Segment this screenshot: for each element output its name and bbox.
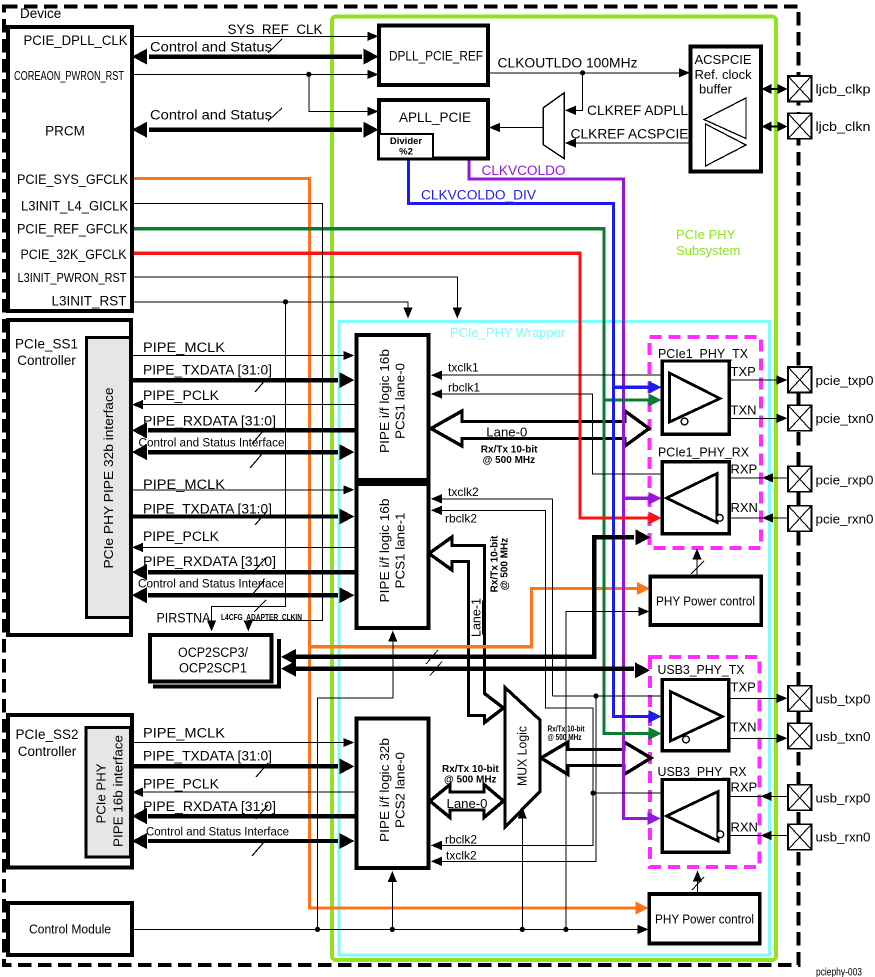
slash pirstna	[254, 600, 266, 612]
slash CS1	[268, 39, 282, 53]
pad pcie_rxn0	[788, 506, 812, 531]
svg-text:PCIe_SS2: PCIe_SS2	[15, 727, 78, 742]
slash CS2	[268, 108, 282, 121]
block PCIe1_PHY_TX	[662, 361, 729, 434]
PCIe PHY Subsystem boundary (green)	[332, 17, 776, 961]
svg-text:Rx/Tx 10-bit: Rx/Tx 10-bit	[442, 764, 499, 775]
wire to MUX bottom	[521, 817, 523, 929]
svg-text:L3INIT_L4_GICLK: L3INIT_L4_GICLK	[21, 199, 128, 214]
svg-text:CLKVCOLDO: CLKVCOLDO	[482, 163, 566, 178]
Lane-0 bus arrow PCS1	[431, 411, 649, 446]
block PHY Power control 1	[650, 577, 761, 626]
block OCP2SCP shadow	[153, 639, 279, 687]
svg-text:PIPE 16b interface: PIPE 16b interface	[111, 735, 126, 847]
bus CtrlStatus g1	[148, 450, 338, 454]
svg-text:Control and Status: Control and Status	[150, 40, 272, 55]
svg-text:Control and Status Interface: Control and Status Interface	[139, 436, 285, 450]
slash bus B	[430, 662, 442, 676]
svg-text:OCP2SCP3/: OCP2SCP3/	[178, 645, 248, 660]
wire PHY power control 2 enable	[697, 876, 699, 894]
wire mux1 to APLL	[499, 127, 543, 129]
svg-text:txclk2: txclk2	[446, 849, 477, 863]
svg-text:USB3_PHY_RX: USB3_PHY_RX	[658, 764, 747, 779]
bus CtrlStatus g2	[148, 593, 338, 597]
wire PIPE_PCLK g2	[142, 546, 355, 548]
wire PIPE_PCLK g1	[142, 404, 355, 406]
wire TXP usb	[729, 697, 778, 699]
svg-text:PIPE_TXDATA [31:0]: PIPE_TXDATA [31:0]	[143, 363, 272, 378]
svg-text:Control Module: Control Module	[29, 923, 111, 937]
wire L3INIT_RST	[131, 302, 408, 311]
svg-text:PIPE_TXDATA [31:0]: PIPE_TXDATA [31:0]	[143, 749, 272, 764]
svg-text:CLKREF ADPLL: CLKREF ADPLL	[587, 103, 688, 118]
svg-text:pcie_rxp0: pcie_rxp0	[816, 472, 874, 487]
usb rx receiver	[667, 792, 719, 842]
slash CS g3	[252, 842, 264, 856]
wire RXP usb	[729, 795, 788, 797]
svg-text:PCS2 lane-0: PCS2 lane-0	[393, 752, 408, 828]
slash TXDATA g2	[255, 511, 267, 525]
block PCIe_SS1 Controller	[8, 320, 131, 635]
svg-text:TXN: TXN	[731, 403, 757, 418]
slash CS g1	[250, 454, 262, 468]
block ACSPCIE buffer	[691, 47, 762, 172]
block USB3_PHY_TX	[662, 680, 729, 751]
pad pcie_txn0	[788, 405, 812, 431]
wire rbclk2 net	[441, 510, 593, 845]
wire SYS_REF_CLK	[131, 35, 369, 37]
svg-text:PIPE_RXDATA [31:0]: PIPE_RXDATA [31:0]	[143, 799, 276, 814]
block PCIe_SS2 Controller	[8, 715, 132, 868]
wire ljcb_clkn	[764, 126, 786, 128]
svg-text:Subsystem: Subsystem	[676, 243, 740, 258]
svg-text:Lane-0: Lane-0	[447, 796, 488, 811]
svg-text:PIPE_PCLK: PIPE_PCLK	[143, 388, 219, 403]
svg-text:RXN: RXN	[731, 820, 758, 835]
wire PIPE_MCLK g1	[131, 355, 345, 357]
MUX to USB3 bus arrow	[541, 742, 651, 775]
USB3 PHY dashed box	[650, 657, 760, 867]
svg-text:usb_txp0: usb_txp0	[816, 692, 871, 707]
svg-text:PRCM: PRCM	[45, 124, 85, 139]
svg-text:@ 500 MHz: @ 500 MHz	[500, 538, 511, 591]
block Divider	[379, 134, 433, 159]
wire RXN usb	[725, 835, 789, 837]
wire L3INIT_L4_GICLK	[131, 204, 323, 625]
block PCIe1_PHY_RX	[662, 462, 729, 534]
pad ljcb_clkp	[788, 76, 812, 102]
svg-text:Controller: Controller	[17, 353, 76, 368]
svg-text:PIPE_MCLK: PIPE_MCLK	[143, 340, 225, 355]
svg-text:rbclk2: rbclk2	[445, 833, 477, 847]
svg-text:RXN: RXN	[731, 500, 758, 515]
wire COREAON_PWRON_RST	[131, 73, 369, 75]
buffer triangle up	[704, 98, 746, 139]
svg-text:MUX Logic: MUX Logic	[515, 726, 530, 786]
bus PIPE_RXDATA g1	[148, 428, 355, 432]
wire CLKOUTLDO 100MHz	[488, 72, 681, 74]
svg-text:PHY Power control: PHY Power control	[656, 595, 755, 609]
svg-text:PIPE_RXDATA [31:0]: PIPE_RXDATA [31:0]	[143, 414, 276, 429]
svg-text:Ref. clock: Ref. clock	[695, 67, 753, 82]
svg-text:PCIe1_PHY_RX: PCIe1_PHY_RX	[658, 445, 749, 460]
svg-text:OCP2SCP1: OCP2SCP1	[179, 661, 247, 676]
svg-text:PCIe1_PHY_TX: PCIe1_PHY_TX	[658, 346, 748, 361]
svg-text:rbclk2: rbclk2	[445, 512, 477, 526]
svg-text:pciephy-003: pciephy-003	[816, 966, 862, 977]
svg-text:buffer: buffer	[699, 82, 733, 97]
wire CLKVCOLDO_DIV (blue)	[409, 159, 656, 717]
svg-text:Control and Status: Control and Status	[150, 108, 272, 123]
svg-text:PCIe PHY: PCIe PHY	[94, 763, 109, 823]
svg-text:Lane-0: Lane-0	[486, 425, 527, 440]
svg-text:txclk2: txclk2	[448, 485, 479, 499]
bus PIPE_RXDATA g2	[148, 570, 355, 574]
svg-text:L3INIT_PWRON_RST: L3INIT_PWRON_RST	[18, 270, 127, 285]
svg-text:CLKVCOLDO_DIV: CLKVCOLDO_DIV	[421, 188, 536, 203]
svg-text:PCIe_PHY Wrapper: PCIe_PHY Wrapper	[450, 325, 566, 340]
wire RXP pcie	[730, 477, 789, 479]
svg-text:PCIE_SYS_GFCLK: PCIE_SYS_GFCLK	[17, 172, 128, 187]
slash RXDATA g1	[252, 430, 264, 444]
PCIe_PHY Wrapper boundary (cyan)	[339, 322, 770, 956]
svg-text:PCIE_32K_GFCLK: PCIE_32K_GFCLK	[21, 247, 127, 262]
Lane-1 bus arrow PCS1 to MUX	[429, 537, 504, 723]
bus PIPE_RXDATA g3	[148, 814, 355, 818]
svg-text:PIPE i/f logic 16b: PIPE i/f logic 16b	[377, 499, 392, 603]
svg-text:COREAON_PWRON_RST: COREAON_PWRON_RST	[14, 68, 124, 83]
svg-text:Control and Status Interface: Control and Status Interface	[146, 825, 289, 839]
svg-text:pcie_txn0: pcie_txn0	[816, 411, 874, 426]
svg-text:usb_rxn0: usb_rxn0	[816, 830, 871, 845]
svg-text:PIPE i/f logic 16b: PIPE i/f logic 16b	[377, 349, 392, 453]
usb tx driver	[671, 692, 723, 742]
block PCS1 lane-0	[357, 335, 429, 480]
wire to PCS1 lane-1 bottom	[392, 657, 394, 698]
svg-text:TXN: TXN	[731, 720, 757, 735]
slash RXDATA g3	[256, 805, 268, 819]
clock mux	[543, 93, 564, 159]
block PCS2 lane-0	[357, 719, 429, 869]
svg-text:RXP: RXP	[731, 780, 758, 795]
wire to PCS2 bottom	[391, 877, 393, 929]
block PCS1 lane-1	[357, 484, 429, 628]
slash TXDATA g3	[256, 763, 268, 777]
svg-text:pcie_rxn0: pcie_rxn0	[816, 511, 874, 526]
pcie tx driver	[670, 373, 721, 422]
svg-text:CLKOUTLDO 100MHz: CLKOUTLDO 100MHz	[498, 56, 638, 71]
svg-text:@ 500 MHz: @ 500 MHz	[548, 733, 582, 742]
svg-text:usb_txn0: usb_txn0	[816, 729, 871, 744]
wire control module	[132, 928, 640, 930]
wire PHY power control 1 enable	[696, 554, 698, 577]
svg-text:DPLL_PCIE_REF: DPLL_PCIE_REF	[389, 49, 483, 64]
bus Control and Status APLL	[149, 127, 362, 131]
pad usb_txp0	[788, 686, 812, 712]
svg-text:pcie_txp0: pcie_txp0	[816, 373, 874, 388]
svg-text:PIRSTNA: PIRSTNA	[157, 611, 211, 626]
bus CtrlStatus g3	[148, 839, 338, 843]
svg-text:PCIE_DPLL_CLK: PCIE_DPLL_CLK	[24, 33, 128, 48]
slash bus A	[426, 650, 438, 664]
block OCP2SCP	[150, 635, 272, 682]
svg-text:ljcb_clkp: ljcb_clkp	[816, 82, 871, 97]
block PIPE 32b interface	[87, 338, 131, 618]
svg-text:RXP: RXP	[731, 462, 758, 477]
svg-text:SYS_REF_CLK: SYS_REF_CLK	[228, 22, 323, 37]
svg-text:PIPE_PCLK: PIPE_PCLK	[143, 777, 219, 792]
svg-text:Controller: Controller	[18, 744, 77, 759]
block USB3_PHY_RX	[662, 780, 729, 853]
svg-text:rbclk1: rbclk1	[448, 381, 480, 395]
block APLL_PCIE	[379, 100, 488, 159]
block PRCM	[8, 27, 132, 311]
wire txclk1	[441, 374, 662, 376]
slash CS g2	[251, 582, 263, 596]
svg-text:Control and Status Interface: Control and Status Interface	[138, 577, 284, 591]
svg-text:Device: Device	[20, 6, 61, 21]
svg-text:PIPE_PCLK: PIPE_PCLK	[143, 529, 219, 544]
svg-text:TXP: TXP	[731, 680, 756, 695]
svg-text:@ 500 MHz: @ 500 MHz	[483, 455, 536, 466]
svg-text:L4CFG_ADAPTER_CLKIN: L4CFG_ADAPTER_CLKIN	[221, 612, 302, 622]
svg-text:Lane-1: Lane-1	[470, 598, 484, 637]
wire PIPE_MCLK g2	[131, 489, 345, 491]
svg-text:usb_rxp0: usb_rxp0	[816, 791, 871, 806]
wire L3INIT_PWRON_RST	[131, 277, 457, 311]
svg-text:PCS1 lane-0: PCS1 lane-0	[393, 363, 408, 439]
svg-text:PCIe PHY PIPE 32b interface: PCIe PHY PIPE 32b interface	[101, 388, 116, 569]
block PIPE 16b interface	[86, 728, 131, 858]
wire TXN pcie	[730, 417, 779, 419]
slash phypc2	[692, 877, 704, 890]
svg-text:APLL_PCIE: APLL_PCIE	[399, 110, 471, 125]
wire RXN pcie	[724, 517, 788, 519]
svg-text:%2: %2	[399, 147, 413, 158]
svg-text:PCS1 lane-1: PCS1 lane-1	[393, 513, 408, 589]
pad usb_rxn0	[788, 824, 812, 850]
pcie rx receiver	[667, 474, 718, 523]
slash RXDATA g2	[254, 558, 266, 572]
svg-text:USB3_PHY_TX: USB3_PHY_TX	[658, 662, 745, 677]
wire ljcb_clkp	[764, 88, 786, 90]
svg-text:CLKREF ACSPCIE: CLKREF ACSPCIE	[571, 127, 689, 142]
block Control Module	[8, 903, 132, 955]
wire TXP pcie	[730, 379, 779, 381]
svg-text:TXP: TXP	[731, 364, 756, 379]
bus PIPE_TXDATA g1	[131, 378, 338, 382]
svg-text:ACSPCIE: ACSPCIE	[695, 52, 752, 67]
svg-text:PIPE_TXDATA [31:0]: PIPE_TXDATA [31:0]	[143, 502, 272, 517]
svg-text:PIPE_RXDATA [31:0]: PIPE_RXDATA [31:0]	[143, 554, 276, 569]
wire PCIE_REF_GFCLK (green)	[131, 229, 655, 734]
svg-text:PHY Power control: PHY Power control	[655, 913, 754, 927]
wire TXN usb	[729, 737, 778, 739]
svg-text:L3INIT_RST: L3INIT_RST	[51, 294, 126, 309]
MUX Logic shape	[505, 688, 540, 828]
slash TXDATA g1	[255, 378, 267, 392]
bus Control and Status DPLL	[149, 54, 362, 58]
wire rbclk1	[441, 394, 662, 474]
block PHY Power control 2	[649, 894, 760, 944]
wire PCIE_32K_GFCLK (red)	[131, 253, 655, 518]
svg-text:PCIe_SS1: PCIe_SS1	[15, 337, 78, 352]
block DPLL_PCIE_REF	[379, 26, 488, 86]
wire txclk2 net	[441, 499, 553, 696]
bus OCP2SCP A	[296, 537, 634, 657]
svg-text:PIPE_MCLK: PIPE_MCLK	[143, 726, 225, 741]
slash phypc1	[691, 561, 704, 574]
wire to PHY power control 1	[566, 612, 640, 930]
pad pcie_txp0	[788, 367, 812, 393]
wire PIPE_PCLK g3	[142, 791, 355, 793]
pad ljcb_clkn	[788, 113, 812, 139]
pad usb_txn0	[788, 723, 812, 749]
pad pcie_rxp0	[788, 466, 812, 492]
svg-text:PIPE_MCLK: PIPE_MCLK	[143, 477, 225, 492]
wire CLKREF ACSPCIE	[576, 142, 691, 144]
wire CLKVCOLDO (purple)	[469, 159, 654, 819]
wire PIPE_MCLK g3	[131, 742, 345, 744]
buffer triangle down	[706, 124, 747, 166]
svg-text:ljcb_clkn: ljcb_clkn	[816, 119, 871, 134]
svg-text:PCIe PHY: PCIe PHY	[676, 227, 736, 242]
svg-text:PCIE_REF_GFCLK: PCIE_REF_GFCLK	[17, 222, 128, 237]
pad usb_rxp0	[788, 785, 812, 811]
PCIe1 PHY dashed box	[650, 337, 762, 548]
svg-text:Divider: Divider	[390, 136, 423, 147]
bus OCP2SCP B	[296, 667, 634, 671]
svg-text:PIPE i/f logic 32b: PIPE i/f logic 32b	[377, 738, 392, 842]
bus PIPE_TXDATA g3	[131, 764, 338, 768]
Lane-0 bus arrow PCS2 to MUX	[430, 785, 504, 818]
wire PCIE_SYS_GFCLK (orange)	[131, 179, 644, 909]
svg-text:@ 500 MHz: @ 500 MHz	[444, 775, 497, 786]
svg-text:txclk1: txclk1	[448, 361, 479, 375]
bus PIPE_TXDATA g2	[131, 514, 338, 518]
